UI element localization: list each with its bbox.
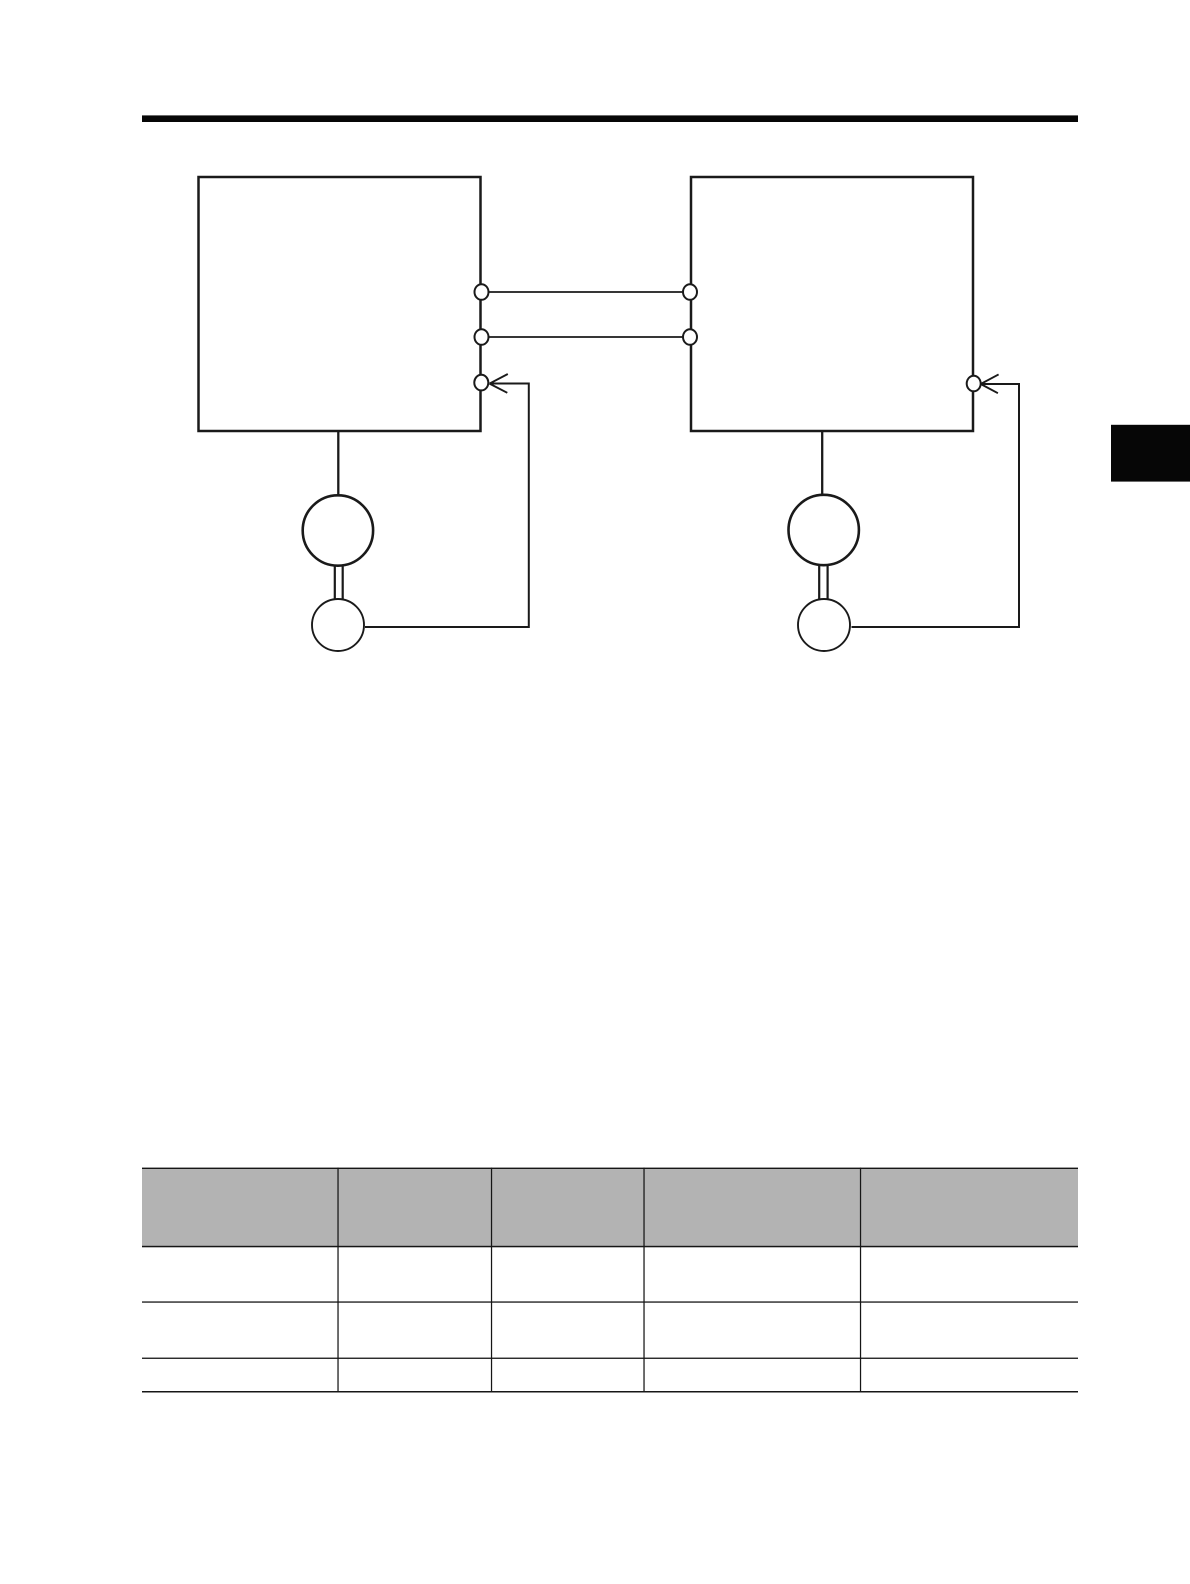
port circle: U1 feedback pin [474,375,488,391]
table column line 2 [491,1168,492,1393]
encoder E1 (left small circle) [312,599,364,651]
port circle: U2 feedback pin [967,376,981,392]
table column line 4 [860,1168,861,1393]
encoder E2 (right small circle) [798,599,850,651]
motor M2 (right big circle) [789,495,859,565]
chapter tab [1111,425,1190,482]
box U1 (left controller) [199,177,481,431]
wire: bus line 2 [482,336,691,338]
table row line 2 [142,1358,1078,1359]
wire: right encoder feedback [852,384,1020,627]
table row line 1 [142,1301,1078,1302]
wire: bus line 1 [482,291,691,293]
port circle: U1 pin 1 [475,284,489,300]
table header bottom line [142,1246,1078,1248]
table top border [142,1168,1078,1169]
shaft coupling right (double line) [819,565,827,601]
table column line 1 [337,1168,338,1393]
wire: right motor lead [821,432,823,496]
table header fill [142,1168,1078,1246]
port circle: U2 pin 2 [683,329,697,345]
motor M1 (left big circle) [303,495,373,565]
port circle: U2 pin 1 [683,284,697,300]
table bottom border [142,1391,1078,1393]
port circle: U1 pin 2 [475,329,489,345]
box U2 (right controller) [691,177,973,431]
arrowhead: left feedback into port [490,374,508,393]
wire: left motor lead [337,432,339,496]
wire: left encoder feedback [365,384,529,628]
arrowhead: right feedback into port [981,374,999,393]
shaft coupling left (double line) [335,565,343,601]
table column line 3 [643,1168,644,1393]
header rule [142,115,1078,122]
